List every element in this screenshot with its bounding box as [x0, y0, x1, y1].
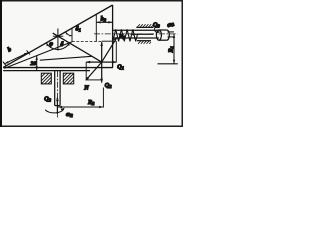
wire: wedge lower incline L2: [4, 42, 72, 69]
svg-text:δ: δ: [60, 41, 63, 48]
svg-text:φ: φ: [49, 41, 53, 48]
wire: rectangle right: [115, 41, 117, 62]
node P1 star on hypotenuse: vertical: [57, 29, 59, 51]
upper guide line: [136, 26, 153, 28]
svg-text:R2: R2: [87, 99, 95, 106]
angle arc phi-delta at P1: [46, 42, 70, 49]
dimension b2: [95, 14, 97, 42]
force R diagonal arrow up-right: [102, 38, 117, 63]
force Q2 up arrow on shaft: [56, 98, 58, 115]
shaft left line: [54, 71, 56, 106]
right bearing block: [63, 73, 73, 84]
force Q1 right arrow: [102, 61, 117, 63]
shaft axis dash-dot: [56, 71, 58, 117]
roller cylinder: [156, 30, 161, 40]
dimension R2: [58, 106, 104, 108]
force left arrow: [86, 61, 101, 63]
wire: R1 bottom reference line: [158, 63, 178, 65]
angle delta1 at P2: [71, 28, 73, 42]
shaft right line: [59, 71, 61, 106]
force N diagonal arrow: [86, 62, 102, 80]
svg-text:2δ: 2δ: [30, 61, 37, 67]
wire: wedge right vertical edge: [112, 5, 114, 68]
wire: rectangle top: [102, 40, 117, 42]
dimension 2delta (small vertical): [36, 56, 38, 70]
lower guide hatching: [138, 41, 151, 44]
wire: normal line P1 to C: [53, 33, 102, 62]
svg-text:Q2: Q2: [105, 82, 112, 89]
rod bottom line: [113, 37, 159, 39]
rod top line: [113, 29, 159, 31]
upper guide hatching: [137, 24, 154, 27]
wire: wedge base lower plate: [3, 70, 90, 72]
wire: dashed construction line to rect corner: [72, 41, 102, 43]
border frame: [1, 1, 183, 127]
dimension R1: [173, 34, 175, 64]
svg-text:Q2: Q2: [44, 96, 51, 103]
wire: R2 right extension: [102, 88, 104, 108]
left bearing block: [41, 73, 51, 84]
wire: rectangle bottom low: [86, 79, 102, 81]
svg-text:ω2: ω2: [66, 111, 73, 118]
spring zigzag: [113, 29, 138, 41]
wire: rectangle left low: [85, 62, 87, 80]
svg-text:b2: b2: [101, 16, 107, 23]
rotation arrow omega2 bottom: [45, 109, 63, 113]
node C force center: up arrow: [101, 42, 103, 62]
svg-text:δ1: δ1: [76, 26, 81, 33]
svg-text:R1: R1: [167, 46, 174, 53]
node P1 short horizontal: [53, 35, 63, 37]
shaft bottom cap: [55, 105, 60, 107]
wire: wedge hypotenuse: [3, 5, 112, 67]
svg-text:Q1: Q1: [117, 64, 124, 71]
wire: rod axis dash-dot: [94, 33, 178, 35]
wire: wedge base upper: [3, 67, 113, 69]
svg-text:Q3: Q3: [153, 22, 160, 29]
rotation arrow omega2 top: [155, 26, 160, 32]
rod stub right of roller: [168, 31, 175, 33]
svg-text:ω2: ω2: [166, 20, 176, 29]
svg-text:b: b: [7, 46, 13, 54]
dimension b: [3, 50, 30, 65]
lower guide line: [137, 40, 151, 42]
svg-text:N: N: [83, 85, 89, 92]
force Q2 down arrow: [101, 62, 103, 82]
force arrow on rod pointing left: [131, 33, 154, 35]
wire: wedge step line to normal: [40, 56, 92, 60]
